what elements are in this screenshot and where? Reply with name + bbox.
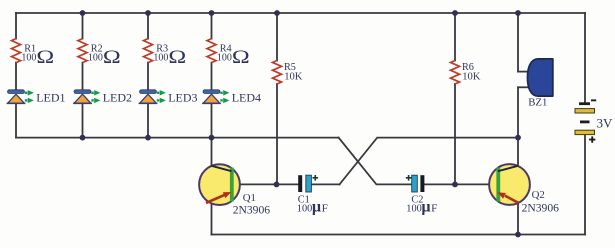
node bus LED2 [80,135,86,141]
transistor Q1 [199,164,270,216]
node Q2 base R6 [452,182,458,188]
svg-text:100: 100 [21,52,36,63]
node Q1 base R5 [274,182,280,188]
wire battery bottom [584,135,586,235]
node top rail R5 [274,10,280,16]
svg-text:100: 100 [406,204,421,215]
svg-text:LED2: LED2 [103,90,132,104]
node bus Q1 collector [209,135,215,141]
wire cross diagonal down [339,138,412,185]
svg-text:BZ1: BZ1 [528,97,547,109]
wire branch4 top [211,13,213,39]
wire branch4 mid [211,63,213,90]
wire branch1 low [15,104,17,138]
node Q2 collector cross [515,135,521,141]
wire branch2 low [82,104,84,138]
wire buzzer branch top [517,13,519,72]
svg-text:Ω: Ω [36,46,54,67]
wire branch2 top [82,13,84,39]
svg-text:µ: µ [312,199,321,216]
wire branch3 low [147,104,149,138]
resistor R5 [273,61,303,85]
wire branch3 mid [147,63,149,90]
svg-text:Ω: Ω [168,46,186,67]
wire Q2 emitter to rail [517,203,519,234]
wire buzzer lead top [518,71,530,73]
svg-text:Q2: Q2 [532,189,545,201]
capacitor C2 [406,175,438,216]
svg-text:LED1: LED1 [36,90,65,104]
node top rail R6 [452,10,458,16]
wire C2 to Q2 base [424,183,496,185]
wire left branch drop [15,13,17,39]
wire branch2 mid [82,63,84,90]
node top rail branch2 [80,10,86,16]
svg-text:10K: 10K [284,72,303,83]
wire branch3 top [147,13,149,39]
capacitor C1 [297,175,328,216]
svg-text:LED4: LED4 [232,90,261,104]
resistor R2 [78,39,121,68]
svg-text:LED3: LED3 [168,90,197,104]
svg-text:100: 100 [153,52,168,63]
battery 3V [575,99,613,142]
svg-text:Q1: Q1 [243,192,256,204]
svg-text:F: F [431,203,437,215]
svg-text:2N3906: 2N3906 [233,203,271,216]
buzzer BZ1 [528,59,553,109]
resistor R4 [207,39,250,68]
wire Q1 emitter to rail [211,203,213,235]
svg-text:F: F [322,203,328,215]
svg-text:100: 100 [217,52,232,63]
wire buzzer to Q2 collector [517,87,519,166]
svg-text:100: 100 [88,52,103,63]
resistor R3 [144,39,187,68]
wire cross diagonal up [340,138,519,185]
wire top rail [16,12,585,14]
wire bottom rail [212,234,586,236]
transistor Q2 [489,164,559,214]
svg-text:Ω: Ω [232,46,250,67]
svg-text:µ: µ [421,199,430,216]
LED LED2 [73,90,132,105]
LED LED4 [202,90,261,105]
wire branch1 mid [15,63,17,90]
resistor R1 [12,39,55,68]
svg-text:3V: 3V [597,116,614,131]
wire LED bus [16,137,339,139]
wire R5 bottom [276,84,278,184]
wire buzzer lead bottom [518,86,530,88]
wire Q1 base to C1 [233,183,298,185]
svg-text:Ω: Ω [103,46,121,67]
wire R5 top [276,13,278,61]
node bottom rail Q2 emitter [515,232,521,238]
svg-text:100: 100 [297,204,312,215]
LED LED1 [7,90,66,105]
node top rail buzzer [515,10,521,16]
wire battery top [584,13,586,102]
wire R6 bottom [454,84,456,184]
wire branch4 low [211,104,213,138]
svg-text:10K: 10K [462,72,481,83]
LED LED3 [139,90,198,105]
svg-text:2N3906: 2N3906 [522,201,560,214]
wire C1 to cross [311,183,339,185]
node top rail branch3 [145,10,151,16]
node bus LED3 [145,135,151,141]
resistor R6 [451,61,481,85]
node top rail branch4 [209,10,215,16]
wire R6 top [454,13,456,61]
wire Q1 collector [211,138,213,167]
